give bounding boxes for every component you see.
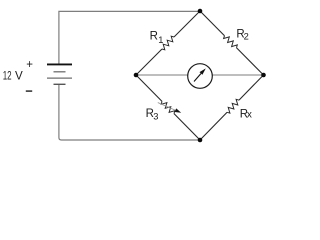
label R1 bbox=[150, 31, 164, 45]
wire: galvanometer to right node bbox=[212, 74, 263, 76]
wire: R2 to right node bbox=[237, 48, 264, 75]
label R2 bbox=[236, 29, 248, 42]
value label 12 V bbox=[3, 70, 23, 83]
label R3 bbox=[146, 108, 159, 121]
wire: Rx to right node bbox=[239, 75, 264, 100]
svg-text:x: x bbox=[247, 110, 252, 121]
wire: R3 to bottom node bbox=[174, 114, 200, 140]
galvanometer needle bbox=[194, 68, 206, 81]
svg-text:1: 1 bbox=[158, 35, 163, 45]
resistor R1 bbox=[162, 36, 174, 50]
branch left node to top node bbox=[136, 11, 200, 75]
galvanometer G1 (meter body) bbox=[188, 64, 213, 89]
wire: battery - terminal down and across to bridge bottom node bbox=[59, 85, 200, 140]
svg-text:+: + bbox=[26, 59, 33, 71]
svg-text:2: 2 bbox=[244, 32, 249, 42]
svg-text:R: R bbox=[150, 31, 158, 43]
node: bridge right junction bbox=[261, 73, 266, 78]
wire: left node to galvanometer bbox=[136, 74, 188, 76]
svg-text:V: V bbox=[15, 70, 23, 83]
wire: R1 to top node bbox=[174, 11, 200, 37]
wire: left node to R1 bbox=[136, 49, 162, 75]
node: bridge left junction bbox=[134, 73, 139, 78]
wiper arrow of variable resistor R3 bbox=[158, 103, 181, 113]
battery B1 (12 V source) bbox=[47, 64, 72, 84]
node: bridge bottom junction bbox=[198, 138, 203, 143]
svg-text:12: 12 bbox=[3, 70, 12, 83]
wire: left node to R3 bbox=[136, 75, 162, 101]
branch left node to bottom node bbox=[136, 75, 200, 140]
node: bridge top junction bbox=[198, 9, 203, 14]
label Rx bbox=[240, 108, 252, 120]
resistor R3 (adjustable) bbox=[161, 101, 175, 113]
resistor Rx (unknown) bbox=[227, 99, 239, 113]
svg-text:3: 3 bbox=[153, 112, 158, 122]
resistor R2 bbox=[224, 36, 238, 48]
branch bottom node to right node bbox=[200, 75, 264, 140]
wire: battery + terminal up and across to bridge top node bbox=[59, 11, 200, 63]
branch top node to right node bbox=[200, 11, 264, 75]
wire: bottom node to Rx bbox=[200, 112, 227, 140]
wire: top node to R2 bbox=[200, 11, 225, 36]
polarity - sign bbox=[26, 90, 32, 92]
